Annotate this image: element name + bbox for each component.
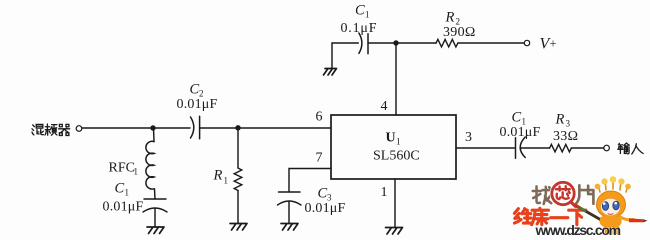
wire node A down to RFC1 <box>153 128 156 142</box>
wire node B to pin 6 <box>238 127 331 129</box>
svg-text:4: 4 <box>381 99 388 114</box>
wire C1 right to R3 <box>521 147 550 149</box>
wire C3 to ground <box>288 202 290 224</box>
svg-text:390Ω: 390Ω <box>443 25 476 40</box>
svg-text:0.01μF: 0.01μF <box>103 200 144 215</box>
svg-text:1: 1 <box>224 176 229 186</box>
wire R3 to output terminal <box>571 147 604 149</box>
svg-text:R: R <box>213 168 223 184</box>
svg-text:0.01μF: 0.01μF <box>177 97 218 112</box>
capacitor C1 top (0.1uF) <box>359 33 362 53</box>
ground (below R1) <box>230 224 247 231</box>
svg-text:C: C <box>115 181 125 197</box>
label C1 right <box>512 110 527 127</box>
label V+ <box>540 36 557 53</box>
capacitor C3 <box>279 191 301 193</box>
wire pin 7 from IC to C3 <box>289 169 331 193</box>
svg-text:1: 1 <box>134 167 139 177</box>
ground (below C1 left) <box>147 227 164 234</box>
capacitor C1 right (0.01uF) <box>515 138 517 158</box>
svg-text:0.01μF: 0.01μF <box>500 125 541 140</box>
svg-text:7: 7 <box>316 151 323 166</box>
svg-text:R: R <box>555 112 565 128</box>
wire R1 to ground <box>237 191 239 224</box>
wire top-rail ground lead <box>332 43 358 68</box>
ground (top left near C1 0.1uF) <box>324 69 337 76</box>
capacitor C2 <box>191 117 194 138</box>
inductor RFC1 <box>146 141 154 189</box>
svg-text:3: 3 <box>566 119 571 129</box>
watermark magnifier with 芯 <box>551 181 578 209</box>
label C1 top <box>355 3 370 20</box>
wire input terminal to node A <box>82 127 153 129</box>
node V+ terminal <box>524 40 529 45</box>
watermark 维库一下 red text <box>514 208 585 224</box>
label 混频器 (mixer, hand-drawn glyphs) <box>32 124 70 135</box>
svg-text:C: C <box>512 110 522 126</box>
svg-text:1: 1 <box>365 10 370 20</box>
svg-text:RFC: RFC <box>109 161 135 176</box>
svg-text:SL560C: SL560C <box>373 149 420 164</box>
wire node B down to R1 <box>237 128 239 168</box>
svg-text:0.1μF: 0.1μF <box>341 21 378 36</box>
watermark mascot <box>576 176 648 234</box>
wire node C to R2 <box>396 42 436 44</box>
label C3 <box>318 186 333 203</box>
svg-text:1: 1 <box>125 188 130 198</box>
capacitor C1 left (0.01uF) <box>144 198 166 200</box>
label C2 <box>190 82 204 99</box>
node C junction <box>393 40 398 45</box>
watermark 找芯片 find-chip logo <box>533 185 594 204</box>
svg-text:C: C <box>190 82 200 98</box>
wire pin 3 from IC to C1 right <box>456 147 515 149</box>
wire node A to C2 <box>153 127 190 129</box>
label 输入 (output, hand-drawn glyphs) <box>618 143 643 154</box>
IC U1 SL560C box <box>331 115 456 179</box>
wire R2 to V+ terminal <box>458 42 524 44</box>
svg-text:1: 1 <box>396 137 401 147</box>
wire pin 4 from top rail to IC <box>395 43 397 115</box>
svg-text:1: 1 <box>381 185 388 200</box>
svg-text:33Ω: 33Ω <box>553 129 578 144</box>
node B junction <box>235 125 240 130</box>
svg-text:R: R <box>445 10 455 26</box>
label R3 <box>555 112 571 129</box>
svg-text:www.dzsc.com: www.dzsc.com <box>535 222 621 238</box>
svg-text:C: C <box>355 3 365 19</box>
node output terminal <box>604 145 610 151</box>
svg-text:+: + <box>550 37 557 51</box>
label C1 left <box>115 181 130 198</box>
node 混频器 input terminal <box>76 126 82 132</box>
svg-text:3: 3 <box>465 130 472 145</box>
label RFC1 <box>109 161 139 177</box>
resistor R1 <box>234 168 242 191</box>
svg-text:C: C <box>318 186 328 202</box>
ground (below pin 1) <box>386 228 403 235</box>
wire RFC1 to C1 left <box>154 189 157 199</box>
svg-text:0.01μF: 0.01μF <box>305 201 346 216</box>
label U1 <box>386 131 401 147</box>
node A junction <box>150 125 155 130</box>
resistor R2 <box>436 39 458 47</box>
svg-text:U: U <box>386 131 396 146</box>
wire C2 to node B <box>200 127 238 129</box>
ground (below C3) <box>281 224 298 231</box>
wire C1 top to node C <box>368 42 396 44</box>
resistor R3 <box>550 144 572 152</box>
label R1 <box>213 168 229 186</box>
wire pin 1 from IC to ground <box>394 179 396 228</box>
svg-text:6: 6 <box>316 110 323 125</box>
label R2 <box>445 10 461 27</box>
wire C1 left to ground <box>154 209 156 227</box>
